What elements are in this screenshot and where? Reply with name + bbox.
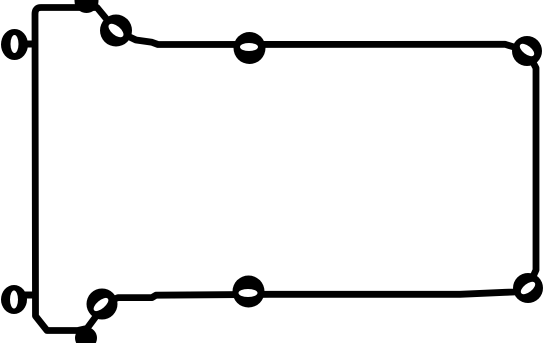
bolt hole bottom-right [513, 273, 543, 303]
bottom bump [75, 327, 97, 343]
bolt hole bottom-left [87, 289, 118, 320]
bolt hole top-left [100, 15, 132, 47]
bolt hole left-top [1, 29, 28, 60]
bolt hole top-middle [234, 32, 266, 64]
top bump [75, 0, 99, 13]
bolt hole left-bottom [1, 285, 27, 314]
bolt hole left-top nub [25, 41, 34, 48]
bolt hole left-bottom nub [25, 292, 34, 299]
bolt hole bottom-middle [233, 276, 265, 308]
bolt hole top-right [512, 36, 542, 66]
